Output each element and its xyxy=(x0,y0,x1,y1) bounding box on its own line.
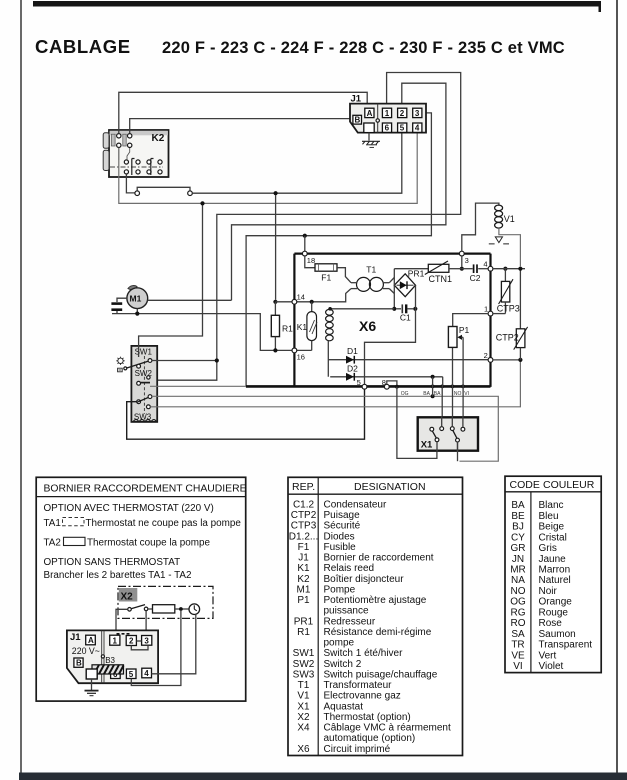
pump M1 xyxy=(127,286,148,309)
wire VI P1 wiper down to X1 xyxy=(462,337,464,427)
svg-text:CABLAGE: CABLAGE xyxy=(35,36,131,57)
svg-text:D2: D2 xyxy=(347,363,358,373)
pin 1 xyxy=(484,304,505,316)
svg-text:5: 5 xyxy=(400,124,405,133)
svg-text:B3: B3 xyxy=(105,656,115,665)
wire bundle J1 pin3 xyxy=(246,113,431,386)
svg-text:VE: VE xyxy=(511,650,525,661)
svg-text:Thermostat coupe la pompe: Thermostat coupe la pompe xyxy=(87,538,210,549)
junction node on K2-pin4 wire xyxy=(200,201,204,205)
wire X1 lower-right terminal down xyxy=(457,442,459,461)
svg-text:SW3: SW3 xyxy=(134,412,152,421)
svg-text:BORNIER RACCORDEMENT CHAUDIERE: BORNIER RACCORDEMENT CHAUDIERE xyxy=(44,484,247,495)
svg-text:Brancher les 2 barettes TA1 -: Brancher les 2 barettes TA1 - TA2 xyxy=(44,570,192,581)
relay reed K1 xyxy=(297,302,317,351)
junction node jumper wire to R1 branch xyxy=(274,191,278,195)
wire pin2 to CTP2 junction xyxy=(493,359,521,361)
svg-text:A: A xyxy=(367,109,373,118)
svg-text:BA: BA xyxy=(434,391,441,397)
wire SW3 left to X6 pin5 (via bottom U) xyxy=(127,389,365,439)
svg-text:5: 5 xyxy=(357,378,361,387)
svg-text:J1: J1 xyxy=(70,632,81,643)
svg-text:OPTION AVEC THERMOSTAT (220 V): OPTION AVEC THERMOSTAT (220 V) xyxy=(44,503,214,514)
svg-text:CTP2: CTP2 xyxy=(291,510,317,521)
CODE / COULEUR table xyxy=(505,476,601,672)
color code labels under X6 bus xyxy=(401,391,469,397)
pin 8 xyxy=(382,378,389,389)
junction coil top xyxy=(328,307,332,311)
page top bar xyxy=(33,1,601,12)
wire SW1 feed from pin4-net junction xyxy=(139,206,203,358)
switch SW1 xyxy=(124,359,152,370)
bornier J1 (lower) xyxy=(67,630,158,683)
wire coil bottom to diodes D1 D2 xyxy=(328,341,342,377)
svg-text:X2: X2 xyxy=(121,592,134,603)
junction dots on X6 bottom bus xyxy=(431,385,465,389)
svg-text:4: 4 xyxy=(415,124,420,133)
jumper link terminal circles xyxy=(135,187,192,195)
wire K2 bottom-left to J1 pin4 (via long horizontal) xyxy=(119,133,417,204)
junction K1 top xyxy=(310,300,314,304)
svg-text:C1.2: C1.2 xyxy=(293,500,315,511)
svg-text:4: 4 xyxy=(144,669,149,678)
junction D2 wire to BA1 xyxy=(431,375,435,379)
svg-text:BA: BA xyxy=(423,391,430,397)
wire SW3 upper-right long (to X1 area) xyxy=(152,396,498,461)
svg-text:Fusible: Fusible xyxy=(324,542,357,553)
svg-text:P1: P1 xyxy=(459,325,470,335)
svg-text:COULEUR: COULEUR xyxy=(543,479,595,491)
svg-text:Naturel: Naturel xyxy=(539,575,571,586)
svg-text:K1: K1 xyxy=(297,563,310,574)
capacitor C1 xyxy=(396,304,413,322)
wire junction down to pin14 net xyxy=(275,195,277,300)
svg-text:RG: RG xyxy=(511,607,526,618)
aquastat X1 xyxy=(418,417,478,450)
svg-text:V1: V1 xyxy=(504,214,515,224)
svg-text:F1: F1 xyxy=(321,272,331,282)
svg-text:K2: K2 xyxy=(152,133,165,144)
svg-text:CTP3: CTP3 xyxy=(291,521,317,532)
svg-text:OG: OG xyxy=(401,391,409,397)
svg-text:OPTION SANS THERMOSTAT: OPTION SANS THERMOSTAT xyxy=(44,557,181,568)
svg-text:RO: RO xyxy=(511,618,526,629)
svg-text:C2: C2 xyxy=(470,273,481,283)
mains capacitor bars left of M1 xyxy=(111,298,127,313)
wire SW2 lower to X6 bottom bus xyxy=(150,385,246,387)
svg-text:220 F - 223 C - 224 F - 228: 220 F - 223 C - 224 F - 228 C - 230 F - … xyxy=(162,39,565,57)
wire F1 to T1 upper tap xyxy=(337,268,351,283)
thermistor CTP2 xyxy=(496,269,528,360)
barrette TA1 dashes between 1 and 2 xyxy=(117,633,131,635)
switch block SW1 SW2 SW3 xyxy=(131,346,157,422)
svg-text:NA: NA xyxy=(511,575,525,586)
wire K2 top-left to J1 A xyxy=(119,92,367,133)
pin 4 xyxy=(483,260,525,272)
svg-text:Relais reed: Relais reed xyxy=(324,563,375,574)
wire bundle J1 pin2 xyxy=(232,83,446,300)
svg-text:TR: TR xyxy=(511,640,524,651)
svg-text:JN: JN xyxy=(512,554,524,565)
svg-text:1: 1 xyxy=(385,109,390,118)
thermostat X2 dash-dot box xyxy=(118,586,213,618)
junction C1 right / PR1 right net xyxy=(413,307,417,311)
wire BA1 vertical xyxy=(432,377,434,397)
svg-text:M1: M1 xyxy=(130,294,142,304)
wire SW3 lower-right long (to CTP2 net) xyxy=(150,362,520,407)
wire jumper to J1 pin5 xyxy=(192,133,401,194)
svg-text:220 V~: 220 V~ xyxy=(72,646,100,656)
svg-text:Transformateur: Transformateur xyxy=(324,680,393,691)
potentiometre P1 xyxy=(448,314,488,348)
svg-text:Condensateur: Condensateur xyxy=(324,500,387,511)
svg-text:NO: NO xyxy=(511,586,526,597)
thermistor CTN1 xyxy=(394,261,462,284)
svg-text:1: 1 xyxy=(113,636,118,645)
wire bundle J1 pin1 xyxy=(150,73,460,381)
switch SW2 xyxy=(137,376,150,386)
svg-text:Bleu: Bleu xyxy=(539,511,559,522)
svg-text:Saumon: Saumon xyxy=(539,629,576,640)
wire K2 top-right to J1 B xyxy=(130,119,353,134)
svg-text:2: 2 xyxy=(484,351,488,360)
svg-text:Sécurité: Sécurité xyxy=(324,521,361,532)
svg-text:R1: R1 xyxy=(282,324,293,334)
svg-text:Câblage VMC à réarmement: Câblage VMC à réarmement xyxy=(324,723,451,734)
svg-text:18: 18 xyxy=(307,256,315,265)
svg-text:X2: X2 xyxy=(297,712,310,723)
REP / DESIGNATION table xyxy=(288,477,463,755)
svg-text:Boîtier disjoncteur: Boîtier disjoncteur xyxy=(324,574,405,585)
svg-text:D1: D1 xyxy=(347,346,358,356)
capacitor C2 xyxy=(462,264,488,283)
svg-text:Transparent: Transparent xyxy=(539,640,593,651)
svg-text:A: A xyxy=(88,636,94,645)
svg-text:REP.: REP. xyxy=(292,481,315,493)
wire J1b 5 to X2 resistor junction xyxy=(131,611,181,686)
gas valve symbol under V1 xyxy=(489,237,509,244)
svg-text:Puisage: Puisage xyxy=(324,510,361,521)
svg-text:X6: X6 xyxy=(297,744,310,755)
boitier disjoncteur K2 xyxy=(103,130,168,177)
terminal white box xyxy=(86,669,97,679)
svg-text:Rose: Rose xyxy=(539,618,563,629)
svg-text:pompe: pompe xyxy=(324,638,355,649)
svg-text:Blanc: Blanc xyxy=(539,500,564,511)
page left border xyxy=(20,0,22,773)
wire X2 switch right to J1b pin3 xyxy=(145,611,147,636)
wire X2 switch to J1b pin1 xyxy=(116,609,128,635)
switch SW3 xyxy=(137,395,152,409)
pin8 jumper to OG wire xyxy=(387,381,399,389)
svg-text:14: 14 xyxy=(297,292,305,301)
transformer T1 xyxy=(351,264,389,291)
thermostat switch in X2 xyxy=(128,605,148,612)
resistor R1 xyxy=(271,302,293,351)
junction M1 bottom xyxy=(135,309,139,316)
clock symbol in X2 xyxy=(189,604,200,615)
svg-text:VI: VI xyxy=(513,661,522,672)
svg-text:3: 3 xyxy=(415,109,420,118)
svg-text:B: B xyxy=(76,659,82,668)
svg-text:BE: BE xyxy=(511,511,525,522)
svg-text:Beige: Beige xyxy=(539,522,565,533)
svg-text:5: 5 xyxy=(129,670,134,679)
svg-text:T1: T1 xyxy=(366,264,376,274)
svg-text:V1: V1 xyxy=(297,691,310,702)
svg-text:2: 2 xyxy=(129,637,134,646)
svg-text:D1.2...: D1.2... xyxy=(289,531,318,542)
pin 16 xyxy=(292,348,305,362)
pin 14 xyxy=(292,292,305,304)
ground under J1 xyxy=(362,133,380,148)
heater resistor in X2 xyxy=(148,605,189,613)
svg-text:X1: X1 xyxy=(421,439,433,450)
junction CTN1/C2 row below pin3 xyxy=(460,267,464,271)
svg-text:SW1: SW1 xyxy=(135,348,153,357)
svg-text:Redresseur: Redresseur xyxy=(324,616,376,627)
svg-text:Potentiomètre ajustage: Potentiomètre ajustage xyxy=(324,595,427,606)
svg-text:6: 6 xyxy=(385,124,390,133)
svg-text:SW1: SW1 xyxy=(293,648,315,659)
wire stubs entering X1 box xyxy=(437,416,463,451)
fuse F1 xyxy=(315,264,337,283)
svg-text:CTP2: CTP2 xyxy=(496,333,519,343)
junction R1 top on pin14 wire xyxy=(273,300,277,304)
svg-text:Vert: Vert xyxy=(539,650,557,661)
svg-text:Noir: Noir xyxy=(539,586,558,597)
svg-text:Electrovanne gaz: Electrovanne gaz xyxy=(324,691,401,702)
svg-text:4: 4 xyxy=(483,260,487,269)
wire junction down to pin 18 xyxy=(304,236,306,252)
wire K2 lower pin to jumper xyxy=(126,174,134,193)
svg-text:J1: J1 xyxy=(351,94,362,105)
diode D1 xyxy=(342,346,491,363)
svg-text:T1: T1 xyxy=(298,680,310,691)
wire T1 right taps to PR1 column xyxy=(389,278,394,294)
svg-text:K1: K1 xyxy=(297,322,308,332)
svg-text:Orange: Orange xyxy=(539,597,573,608)
link 2 to 3 xyxy=(136,640,141,642)
svg-text:TA2: TA2 xyxy=(44,538,61,549)
svg-text:SW2: SW2 xyxy=(293,659,315,670)
bornier de raccordement J1 xyxy=(350,94,426,133)
svg-text:X1: X1 xyxy=(297,701,310,712)
junction node pin3-wire to X6 pin18 xyxy=(303,234,307,238)
svg-text:Diodes: Diodes xyxy=(324,531,355,542)
svg-text:X6: X6 xyxy=(359,318,376,334)
circuit imprime X6 board outline xyxy=(246,254,491,387)
svg-text:SW3: SW3 xyxy=(293,669,315,680)
bornier raccordement chaudiere info box xyxy=(36,477,246,701)
wire PR1 right corner down through C1 to pin5 xyxy=(365,285,416,384)
electrovanne gaz V1 xyxy=(462,203,521,266)
svg-text:16: 16 xyxy=(297,353,305,362)
svg-text:VI: VI xyxy=(464,391,469,397)
svg-text:1: 1 xyxy=(484,304,488,313)
wire C1 row to relay coil top xyxy=(330,308,394,310)
svg-text:Marron: Marron xyxy=(539,565,571,576)
svg-text:Gris: Gris xyxy=(539,543,557,554)
svg-text:GR: GR xyxy=(511,543,526,554)
svg-text:Thermostat ne coupe pas la pom: Thermostat ne coupe pas la pompe xyxy=(86,518,242,529)
svg-text:Jaune: Jaune xyxy=(539,554,567,565)
svg-text:SA: SA xyxy=(511,629,525,640)
svg-text:Thermostat (option): Thermostat (option) xyxy=(324,712,411,723)
wire NO P1 bottom down to X1 xyxy=(452,347,454,426)
junction C1 left xyxy=(392,307,396,311)
junction CTP3 top on pin4 wire xyxy=(503,267,507,271)
svg-text:CTN1: CTN1 xyxy=(429,274,453,284)
svg-text:Switch 1 été/hiver: Switch 1 été/hiver xyxy=(324,648,404,659)
svg-text:3: 3 xyxy=(144,636,149,645)
wire OG pin8 down to X1 xyxy=(397,387,437,459)
resistor B3 hatched xyxy=(92,665,124,674)
svg-text:C1: C1 xyxy=(400,313,411,323)
svg-text:PR1: PR1 xyxy=(408,268,425,278)
pin 2 xyxy=(484,351,493,362)
svg-text:DESIGNATION: DESIGNATION xyxy=(354,481,426,493)
relay coil (X6) xyxy=(326,309,334,340)
svg-text:puissance: puissance xyxy=(324,606,369,617)
ground under J1 lower xyxy=(85,679,99,696)
svg-text:8: 8 xyxy=(382,378,386,387)
svg-text:Switch puisage/chauffage: Switch puisage/chauffage xyxy=(324,669,438,680)
svg-text:Bornier de raccordement: Bornier de raccordement xyxy=(324,553,434,564)
svg-text:F1: F1 xyxy=(298,542,310,553)
wire BA2 D2 end down to X1 xyxy=(441,377,444,427)
svg-text:X4: X4 xyxy=(297,723,310,734)
ete/hiver icons xyxy=(116,357,124,372)
svg-text:K2: K2 xyxy=(297,574,310,585)
svg-text:Résistance demi-régime: Résistance demi-régime xyxy=(324,627,432,638)
svg-text:J1: J1 xyxy=(298,553,309,564)
svg-text:BJ: BJ xyxy=(512,522,524,533)
svg-text:CTP3: CTP3 xyxy=(497,304,520,314)
diode D2 xyxy=(330,363,443,380)
pin 5 xyxy=(357,378,367,389)
wire M1 lower to X6 pin16 xyxy=(112,314,312,351)
svg-text:Switch 2: Switch 2 xyxy=(324,659,362,670)
wire M1 right to J1-pin2 net xyxy=(148,299,232,301)
svg-text:Cristal: Cristal xyxy=(539,532,567,543)
svg-text:Violet: Violet xyxy=(539,661,564,672)
svg-text:R1: R1 xyxy=(297,627,310,638)
page bottom bar xyxy=(19,773,627,780)
svg-text:OG: OG xyxy=(510,597,526,608)
junction pin4/V1 net xyxy=(518,267,522,271)
svg-text:PR1: PR1 xyxy=(294,616,314,627)
svg-text:M1: M1 xyxy=(297,585,311,596)
svg-text:Pompe: Pompe xyxy=(324,585,356,596)
svg-text:MR: MR xyxy=(510,565,526,576)
svg-text:Circuit imprimé: Circuit imprimé xyxy=(324,744,391,755)
page right border xyxy=(616,0,618,773)
junction R1 bottom xyxy=(273,348,277,352)
svg-text:NO: NO xyxy=(454,391,462,397)
svg-text:CY: CY xyxy=(511,532,525,543)
pin 3 xyxy=(459,251,468,266)
junction CTP2 bottom xyxy=(518,358,522,362)
svg-text:P1: P1 xyxy=(297,595,310,606)
svg-text:BA: BA xyxy=(511,500,525,511)
wire J1b 4 to clock xyxy=(152,614,196,674)
rectifier PR1 xyxy=(394,268,424,296)
junction SW1 right on pin1-net vertical xyxy=(152,358,219,362)
barrette U under 2-3 xyxy=(131,645,148,650)
thermistor CTP3 xyxy=(497,269,520,314)
svg-text:TA1: TA1 xyxy=(44,518,62,529)
svg-text:Rouge: Rouge xyxy=(539,607,569,618)
svg-text:automatique (option): automatique (option) xyxy=(324,733,416,744)
wire PR1 left vertical (T1/CTN1/C1 net) xyxy=(393,269,395,309)
svg-text:2: 2 xyxy=(400,109,405,118)
junction BA1 on SW3-upper wire xyxy=(431,394,435,398)
wire pin14 row xyxy=(275,289,351,302)
svg-text:CODE: CODE xyxy=(510,479,540,491)
svg-text:3: 3 xyxy=(465,256,469,265)
svg-text:B: B xyxy=(355,116,361,125)
pin 18 xyxy=(302,251,315,268)
svg-text:Aquastat: Aquastat xyxy=(324,701,364,712)
